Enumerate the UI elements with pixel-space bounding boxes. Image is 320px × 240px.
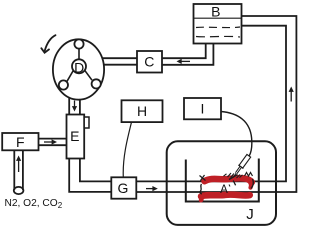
rat black marks: left whiskers [200, 175, 206, 181]
rat A (red body strokes) [201, 178, 252, 201]
arrow up (gas flow) [16, 156, 21, 173]
svg-text:N2, O2, CO2: N2, O2, CO2 [5, 198, 63, 210]
roller bottom-left [59, 80, 68, 89]
arrow down (D to E) [72, 101, 77, 112]
reservoir B [194, 4, 242, 44]
wire pipe D to C [100, 58, 137, 64]
rotation arrow (counterclockwise) [41, 35, 55, 53]
svg-text:C: C [144, 54, 154, 70]
pump center circle [72, 59, 86, 73]
rat black marks: incision ticks near needle [224, 173, 243, 185]
svg-text:D: D [74, 59, 84, 75]
svg-text:B: B [211, 4, 220, 20]
syringe [230, 154, 251, 179]
arrow up (right riser) [289, 87, 294, 102]
box F [2, 133, 38, 150]
arrow right (F to E) [44, 139, 57, 144]
peristaltic pump D [53, 39, 104, 99]
rat black marks: right ear zigzag [245, 173, 253, 177]
svg-text:H: H [137, 103, 147, 119]
box H [122, 100, 163, 122]
rat black marks: left leg squiggle [200, 184, 202, 194]
box I [184, 98, 221, 119]
svg-text:A: A [220, 184, 228, 196]
gas cylinder tube below F [14, 150, 24, 194]
box E [67, 115, 90, 159]
box G [111, 177, 136, 198]
svg-text:J: J [246, 206, 254, 223]
wire pipe loop: B right, down right side, bottom to G [136, 16, 296, 192]
chamber J rounded rect [167, 141, 276, 225]
wire pipe D down to E [69, 95, 80, 115]
dashed liquid line 2 [196, 35, 240, 38]
cable I to syringe [221, 112, 252, 157]
roller bottom-right [92, 79, 101, 88]
apostrophe mark right of A [229, 185, 230, 187]
box C [137, 51, 162, 73]
cable H to G [123, 122, 131, 177]
spokes [67, 49, 92, 82]
wire pipe E down and right to G [69, 159, 111, 192]
arrow left (flow B to C) [177, 59, 191, 64]
tab on E right side [84, 117, 89, 128]
rat black marks: right leg curve [251, 179, 253, 189]
roller top [74, 39, 83, 48]
svg-text:I: I [201, 101, 205, 117]
wire pipe B down to C with elbow [162, 43, 213, 65]
arrow right (flow G to chamber) [146, 186, 158, 191]
svg-text:G: G [118, 180, 129, 196]
wire pipe F to E [39, 139, 68, 146]
svg-text:E: E [70, 128, 79, 144]
liquid surface line [194, 17, 241, 19]
inner bath (open-top container) [186, 159, 259, 202]
svg-text:F: F [16, 134, 25, 150]
dashed liquid line 1 [196, 26, 240, 29]
